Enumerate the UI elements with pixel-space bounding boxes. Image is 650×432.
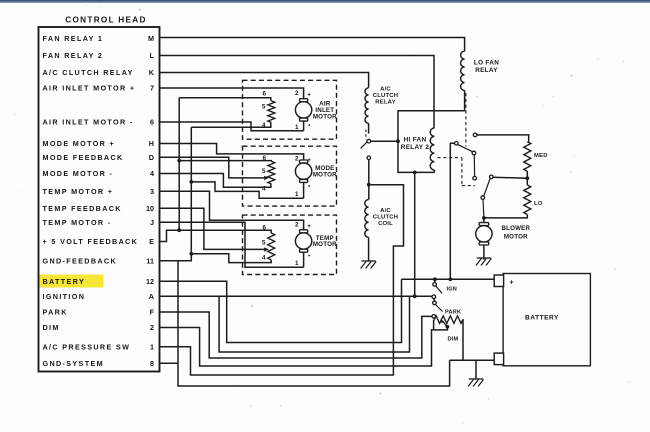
- mode pot wiper arrow: [264, 176, 269, 180]
- DIM wiper arm: [443, 321, 448, 327]
- linkage dash under T3: [462, 185, 475, 187]
- battery box: [503, 274, 590, 366]
- battery row highlight: [40, 275, 104, 288]
- svg-text:+: +: [307, 223, 311, 230]
- wire 7 to air motor pin2: [160, 88, 304, 99]
- wire 1 a/c pressure row: [160, 185, 404, 375]
- svg-text:+ 5 VOLT FEEDBACK: + 5 VOLT FEEDBACK: [43, 237, 139, 246]
- +5v feedback vertical bus: [178, 98, 180, 230]
- svg-text:A: A: [149, 292, 154, 301]
- svg-text:H: H: [149, 139, 154, 148]
- wire D to mode pot wiper: [160, 157, 265, 178]
- svg-text:BATTERY: BATTERY: [43, 277, 86, 286]
- linkage dash HI2 right: [438, 157, 462, 159]
- LO resistor: [524, 185, 531, 215]
- wire LO coil bottom to node: [398, 90, 465, 172]
- svg-text:AIR INLET MOTOR +: AIR INLET MOTOR +: [43, 84, 136, 93]
- clutch relay contact upper: [367, 139, 371, 143]
- svg-text:PARK: PARK: [445, 310, 461, 316]
- temp pot: [268, 233, 275, 260]
- svg-text:6: 6: [150, 118, 154, 127]
- svg-text:IGN: IGN: [447, 287, 458, 293]
- wire ground drop near battery: [475, 360, 477, 379]
- A/C clutch coil: [365, 200, 369, 238]
- svg-text:GND-SYSTEM: GND-SYSTEM: [43, 359, 104, 368]
- air pot pin4 wire: [191, 122, 270, 127]
- svg-text:MOTOR: MOTOR: [313, 171, 337, 178]
- svg-text:DIM: DIM: [43, 323, 60, 332]
- svg-text:DIM: DIM: [448, 337, 459, 343]
- junction node clutch coil top: [367, 183, 371, 187]
- svg-text:2: 2: [150, 323, 154, 332]
- fan switch contact T2: [472, 151, 476, 155]
- wire T2 to T3: [473, 155, 475, 177]
- IGN switch contact lower: [432, 295, 436, 299]
- junction node MED-LO: [525, 176, 529, 180]
- HI fan relay 2 coil: [430, 128, 434, 170]
- svg-text:MODE FEEDBACK: MODE FEEDBACK: [43, 153, 124, 162]
- svg-text:1: 1: [150, 342, 154, 351]
- svg-text:IGNITION: IGNITION: [43, 292, 86, 301]
- temp motor: [303, 229, 305, 231]
- LO fan relay coil: [461, 51, 465, 90]
- svg-text:4: 4: [262, 254, 266, 261]
- wire J to temp motor pin1: [160, 222, 304, 267]
- junction node battery plus switchfeed: [448, 277, 452, 281]
- svg-text:L: L: [150, 51, 155, 60]
- air pot: [268, 101, 275, 123]
- wire 4 to mode pot pin4: [160, 174, 271, 188]
- wire H to mode motor pin2: [160, 144, 304, 161]
- wire switch feed vertical: [450, 143, 454, 279]
- fan switch arm P2: [484, 179, 490, 196]
- air inlet motor dashed box: [243, 80, 337, 139]
- air pot pin6 wire: [179, 98, 271, 101]
- svg-text:1: 1: [295, 260, 299, 267]
- PARK switch contact lower: [432, 315, 436, 319]
- svg-text:12: 12: [146, 277, 154, 286]
- LO resistor top wire: [526, 178, 528, 185]
- svg-text:MODE MOTOR -: MODE MOTOR -: [43, 169, 114, 178]
- svg-text:F: F: [150, 308, 155, 317]
- wire E +5v feedback bus: [160, 230, 272, 241]
- junction node battery plus IGN: [433, 277, 437, 281]
- svg-text:MED: MED: [534, 153, 548, 159]
- mode pot pin6 wire: [179, 160, 271, 163]
- wire 8 gnd-system row: [160, 362, 179, 364]
- temp pot wiper arrow: [264, 247, 269, 251]
- svg-text:MODE MOTOR +: MODE MOTOR +: [43, 139, 116, 148]
- svg-text:MOTOR: MOTOR: [313, 241, 337, 248]
- svg-text:6: 6: [262, 155, 266, 162]
- wire K a/c clutch relay: [160, 73, 369, 88]
- fan switch pivot P2: [490, 175, 494, 179]
- svg-text:LO: LO: [534, 201, 543, 207]
- svg-text:TEMP MOTOR +: TEMP MOTOR +: [43, 187, 114, 196]
- svg-text:6: 6: [262, 90, 266, 97]
- svg-text:6: 6: [262, 224, 266, 231]
- svg-text:1: 1: [295, 191, 299, 198]
- battery terminal bottom: [494, 353, 503, 365]
- mode pot: [268, 161, 275, 184]
- svg-text:2: 2: [295, 90, 299, 97]
- mode motor: [303, 159, 305, 161]
- linkage dash LO relay: [465, 93, 467, 147]
- svg-text:COIL: COIL: [378, 221, 393, 227]
- wire 11 gnd-feedback: [160, 254, 192, 261]
- wire battery plus: [402, 278, 495, 280]
- junction node on gnd-feedback bus: [189, 180, 193, 184]
- svg-text:RELAY 2: RELAY 2: [401, 144, 430, 151]
- DIM rheostat: [434, 316, 463, 324]
- svg-text:HI FAN: HI FAN: [404, 137, 427, 144]
- svg-text:A/C: A/C: [380, 208, 391, 214]
- DIM right end wire: [462, 320, 464, 361]
- gnd-system vertical bus: [178, 261, 450, 386]
- svg-text:RELAY: RELAY: [375, 100, 395, 106]
- svg-text:7: 7: [150, 84, 154, 93]
- svg-text:FAN RELAY 1: FAN RELAY 1: [43, 34, 104, 43]
- gnd-feedback vertical bus: [190, 127, 192, 254]
- svg-text:GND-FEEDBACK: GND-FEEDBACK: [43, 256, 118, 265]
- svg-text:CONTROL HEAD: CONTROL HEAD: [65, 16, 146, 25]
- junction node E bus temp branch: [177, 228, 181, 232]
- junction node DIM wiper: [446, 325, 450, 329]
- svg-text:LO FAN: LO FAN: [474, 60, 499, 67]
- svg-text:FAN RELAY 2: FAN RELAY 2: [43, 51, 104, 60]
- svg-text:5: 5: [262, 239, 266, 246]
- clutch relay contact lower: [367, 156, 371, 160]
- clutch relay contact arm: [361, 142, 368, 149]
- control head box: [39, 27, 160, 372]
- fan switch contact T1: [473, 133, 477, 137]
- PARK switch contact upper: [433, 299, 435, 302]
- svg-text:2: 2: [295, 155, 299, 162]
- svg-text:RELAY: RELAY: [475, 67, 498, 74]
- wire LO bottom to blower node: [484, 215, 527, 218]
- svg-text:5: 5: [262, 168, 266, 175]
- svg-text:E: E: [149, 237, 154, 246]
- temp pot pin4 wire: [191, 254, 271, 263]
- wire 12 battery row: [160, 279, 402, 342]
- wire 3 to temp motor pin2: [160, 191, 304, 230]
- wire L fan relay 2: [160, 56, 435, 129]
- wire HI2 coil bottom stub: [433, 170, 435, 172]
- svg-text:J: J: [150, 218, 154, 227]
- svg-text:A/C PRESSURE SW: A/C PRESSURE SW: [43, 342, 131, 351]
- svg-text:D: D: [149, 153, 154, 162]
- svg-text:A/C CLUTCH RELAY: A/C CLUTCH RELAY: [43, 68, 134, 77]
- PARK switch arm: [435, 305, 442, 312]
- junction node blower: [482, 216, 486, 220]
- junction node HI2 bottom: [413, 171, 417, 175]
- wire T4 to blower node: [482, 199, 485, 216]
- linkage dash HI2 down: [461, 158, 463, 186]
- MED resistor: [524, 142, 531, 172]
- svg-text:CLUTCH: CLUTCH: [373, 215, 398, 221]
- junction node on x398: [396, 139, 400, 143]
- svg-text:A/C: A/C: [380, 87, 391, 93]
- fan switch contact T3: [473, 176, 477, 180]
- svg-text:CLUTCH: CLUTCH: [373, 93, 398, 99]
- svg-text:BATTERY: BATTERY: [525, 315, 559, 322]
- svg-text:K: K: [149, 68, 155, 77]
- DIM left end wire: [433, 320, 436, 330]
- blower motor: [483, 218, 485, 223]
- svg-text:8: 8: [150, 359, 154, 368]
- svg-text:+: +: [510, 280, 514, 287]
- svg-text:3: 3: [150, 187, 154, 196]
- svg-text:TEMP MOTOR -: TEMP MOTOR -: [43, 218, 112, 227]
- ground below blower: [477, 257, 491, 259]
- wire gnd-feedback branch to mode motor pin1: [191, 182, 303, 198]
- wire clutch coil to ground: [368, 237, 370, 261]
- svg-text:4: 4: [150, 169, 154, 178]
- wire P2 to MED-LO junction: [493, 177, 527, 178]
- svg-text:M: M: [148, 34, 154, 43]
- svg-text:BLOWER: BLOWER: [501, 225, 530, 232]
- svg-text:MOTOR: MOTOR: [313, 113, 337, 120]
- wire A loop: [219, 296, 409, 352]
- svg-text:MOTOR: MOTOR: [504, 234, 528, 241]
- wire F park row: [160, 312, 432, 358]
- mode motor dashed box: [243, 146, 337, 206]
- svg-text:+: +: [307, 92, 311, 99]
- fan switch contact T4: [481, 196, 485, 200]
- fan switch arm P1: [458, 145, 473, 152]
- wire T1 to MED resistor: [477, 135, 529, 142]
- wire 2 dim row: [160, 327, 448, 366]
- wire 10 to temp pot wiper: [160, 208, 265, 249]
- junction node gnd-feedback temp: [189, 252, 193, 256]
- top window bar: [0, 0, 650, 3]
- svg-text:2: 2: [295, 222, 299, 229]
- fan switch pivot P1: [455, 142, 459, 146]
- relay linkage dash: [365, 130, 367, 140]
- junction node E bus mode branch: [177, 159, 181, 163]
- wire MED bottom to junction: [526, 171, 528, 178]
- IGN switch arm: [436, 286, 442, 293]
- svg-text:PARK: PARK: [43, 308, 68, 317]
- wire A ignition row: [160, 295, 432, 297]
- wire upper contact to HI2 node: [371, 140, 398, 142]
- svg-text:4: 4: [262, 185, 266, 192]
- wire HI2 node down to IGN node: [414, 172, 416, 296]
- svg-text:TEMP FEEDBACK: TEMP FEEDBACK: [43, 204, 122, 213]
- ground below clutch coil: [361, 260, 375, 262]
- svg-text:5: 5: [262, 103, 266, 110]
- wire battery minus: [450, 359, 495, 361]
- battery terminal top: [494, 275, 503, 287]
- IGN switch contact upper: [434, 279, 436, 282]
- wire 6 to air motor pin1: [160, 122, 304, 131]
- junction node A at HI2 vertical: [413, 294, 417, 298]
- air inlet motor: [303, 98, 305, 100]
- A/C clutch relay coil: [365, 88, 369, 124]
- wire M fan relay 1: [160, 38, 465, 52]
- ground near battery: [469, 378, 483, 380]
- svg-text:10: 10: [146, 204, 154, 213]
- wire coil to contact: [368, 123, 370, 133]
- svg-text:AIR INLET MOTOR -: AIR INLET MOTOR -: [43, 118, 134, 127]
- temp motor dashed box: [243, 215, 337, 274]
- svg-text:11: 11: [146, 256, 154, 265]
- wire lower contact to clutch coil: [368, 160, 370, 200]
